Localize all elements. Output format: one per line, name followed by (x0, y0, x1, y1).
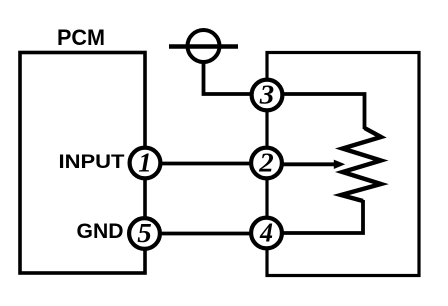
connector pin 2 (251, 148, 282, 179)
PCM module box (20, 53, 145, 274)
GND label (77, 220, 124, 243)
connector pin 5 (129, 218, 160, 249)
connector pin 1 (130, 148, 161, 179)
svg-text:INPUT: INPUT (59, 151, 125, 173)
svg-text:2: 2 (258, 148, 274, 178)
PCM label (57, 25, 105, 50)
svg-text:1: 1 (138, 148, 152, 178)
svg-text:5: 5 (137, 218, 152, 248)
svg-text:PCM: PCM (57, 25, 105, 50)
svg-text:3: 3 (259, 80, 275, 110)
svg-text:4: 4 (259, 218, 273, 248)
sensor housing box (267, 53, 419, 276)
connector pin 4 (251, 218, 282, 249)
wire: INPUT node 1 to node 2 (145, 162, 267, 166)
wire: GND node 5 to node 4 (145, 232, 267, 236)
wire: power feed to node 3 (204, 62, 268, 94)
resistor element (zigzag) (341, 128, 381, 201)
wiper arrow from node 2 (267, 160, 346, 169)
connector pin 3 (252, 80, 283, 111)
INPUT label (59, 151, 125, 173)
power feed symbol B+ (169, 30, 238, 62)
wire: node 3 to resistor top (267, 94, 365, 129)
svg-text:GND: GND (77, 220, 124, 243)
wire: node 4 to resistor bottom (267, 200, 363, 233)
